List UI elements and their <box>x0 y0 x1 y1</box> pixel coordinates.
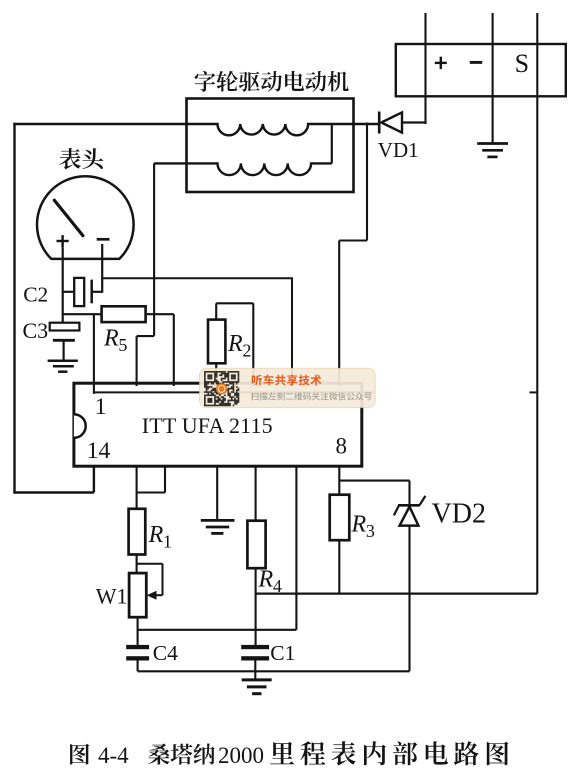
svg-text:R: R <box>351 512 367 538</box>
svg-text:1: 1 <box>163 532 172 552</box>
svg-text:R: R <box>227 331 243 357</box>
svg-text:C3: C3 <box>23 318 49 343</box>
svg-text:ITT UFA 2115: ITT UFA 2115 <box>142 413 273 438</box>
svg-text:VD1: VD1 <box>378 138 419 162</box>
svg-text:5: 5 <box>118 335 127 355</box>
svg-text:4-4: 4-4 <box>98 743 129 768</box>
svg-text:S: S <box>515 49 529 78</box>
svg-text:4: 4 <box>273 576 282 596</box>
svg-text:8: 8 <box>336 434 348 459</box>
svg-text:3: 3 <box>366 521 375 541</box>
svg-text:C2: C2 <box>23 283 48 307</box>
svg-text:W1: W1 <box>96 584 128 609</box>
svg-text:R: R <box>258 567 274 593</box>
svg-text:C4: C4 <box>153 641 178 665</box>
svg-text:2: 2 <box>242 341 251 361</box>
svg-text:2000: 2000 <box>218 743 264 768</box>
svg-text:1: 1 <box>95 394 107 420</box>
svg-text:VD2: VD2 <box>432 498 486 529</box>
svg-text:R: R <box>148 522 164 548</box>
svg-text:C1: C1 <box>270 641 295 665</box>
svg-text:R: R <box>103 326 119 352</box>
svg-text:14: 14 <box>87 438 111 464</box>
